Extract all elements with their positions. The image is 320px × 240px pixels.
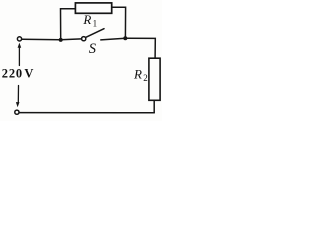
wire R2 bottom lead <box>153 100 155 112</box>
wire R1 branch left riser <box>61 9 76 40</box>
node B junction dot <box>123 36 127 40</box>
svg-text:V: V <box>24 66 33 80</box>
svg-text:S: S <box>89 41 97 57</box>
wire R1 branch right riser <box>112 7 126 38</box>
wire source lead upper (arrow to top terminal) <box>18 47 20 66</box>
wire bottom return <box>19 112 154 114</box>
node A junction dot <box>59 38 63 42</box>
resistor R2 <box>149 58 160 100</box>
svg-text:R: R <box>133 67 142 82</box>
svg-text:220: 220 <box>2 66 23 80</box>
wire from switch contact to node B <box>101 38 126 40</box>
switch S pivot circle <box>82 37 86 41</box>
svg-text:1: 1 <box>93 18 98 28</box>
switch S blade <box>86 29 104 38</box>
resistor R1 <box>75 3 111 13</box>
svg-text:2: 2 <box>143 73 148 83</box>
wire source lead lower (arrow to bottom terminal) <box>17 86 19 103</box>
svg-text:R: R <box>82 12 91 27</box>
terminal top-left <box>17 37 21 41</box>
wire from node A to switch <box>61 38 82 41</box>
wire node B to top-right corner <box>125 38 155 58</box>
terminal bottom-left <box>15 110 19 114</box>
wire top from terminal to node A <box>22 38 61 41</box>
